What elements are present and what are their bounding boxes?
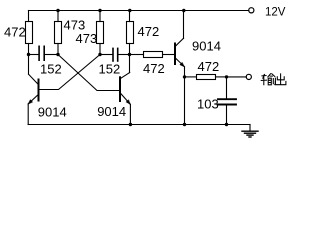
wire R1 top lead [28, 11, 30, 22]
svg-text:9014: 9014 [97, 104, 126, 119]
wire Q3 emitter lead down to output node [184, 67, 186, 77]
node dot R2 [128, 53, 131, 56]
svg-text:152: 152 [40, 62, 62, 77]
wire ground stub [249, 125, 251, 132]
transistor Q3 base bar [174, 44, 176, 65]
transistor Q2 base bar [119, 77, 121, 101]
capacitor C3 103 plates [218, 98, 236, 100]
resistor R1 472 body [26, 22, 33, 44]
transistor Q3 emitter diagonal with arrow [175, 58, 184, 67]
node dot top rail R4 [128, 9, 131, 12]
svg-text:9014: 9014 [192, 38, 221, 53]
label output chinese 输出 [261, 73, 286, 85]
svg-text:9014: 9014 [38, 104, 67, 119]
wire R4 bottom lead [129, 44, 131, 55]
wire Q3 collector lead [183, 11, 185, 39]
svg-text:12V: 12V [265, 7, 286, 19]
resistor R5 472 body horizontal [144, 52, 163, 58]
wire R4 top lead [129, 11, 131, 22]
terminal 12V circle [249, 8, 254, 13]
wire R5 to Q3 base [163, 54, 174, 56]
wire Q1 collector lead [28, 55, 30, 75]
wire node R2 to R5 [130, 54, 144, 56]
char shu 输 [261, 74, 267, 85]
transistor Q2 emitter diagonal with arrow [121, 93, 131, 104]
transistor Q1 collector diagonal [29, 74, 39, 84]
svg-text:152: 152 [99, 62, 121, 77]
node dot rail emitter down [183, 123, 186, 126]
wire R3 top lead [99, 11, 101, 22]
node dot cap top [225, 75, 228, 78]
svg-text:472: 472 [198, 59, 220, 74]
node dot R1 [98, 53, 101, 56]
node dot rail Q2 emitter [129, 123, 132, 126]
transistor Q2 collector diagonal [120, 73, 129, 79]
wire C2 right plate to node R2 [119, 54, 130, 56]
wire Q2 collector lead [129, 55, 131, 73]
node dot top rail Q3 collector [182, 9, 185, 12]
svg-text:473: 473 [76, 31, 98, 46]
wire bottom ground rail [28, 124, 250, 126]
node dot output emitter [183, 75, 186, 78]
transistor Q1 emitter diagonal with arrow [28, 95, 38, 104]
wire top supply rail [29, 10, 249, 12]
resistor R3 473 body [97, 22, 104, 44]
wire R3 bottom lead [99, 44, 101, 55]
wire R1 bottom lead [28, 44, 30, 55]
wire R6 to output cap node [216, 76, 227, 78]
transistor Q1 base bar [38, 80, 40, 101]
wire Q1 emitter lead [27, 104, 29, 125]
char chu 出 [275, 73, 286, 84]
svg-text:472: 472 [4, 25, 26, 40]
wire output node to R6 [185, 76, 197, 78]
wire node L1 to C1 left plate [29, 54, 39, 56]
wire R2 top lead [57, 11, 59, 22]
svg-text:472: 472 [138, 24, 160, 39]
wire node R1 to C2 left plate [100, 54, 112, 56]
resistor R2 473 body [55, 22, 62, 44]
wire C1 right plate to node L2 [45, 54, 58, 56]
wire Q2 emitter lead [129, 104, 131, 124]
capacitor C1 152 plates [38, 46, 40, 60]
wire output node down to ground rail [184, 77, 186, 125]
wire cap C3 top lead [226, 77, 228, 98]
node dot top rail R2 [56, 9, 59, 12]
node dot L2 [56, 53, 59, 56]
resistor R4 472 body [127, 22, 134, 44]
wire R2 bottom lead [57, 44, 59, 55]
node dot L1 [27, 53, 30, 56]
svg-text:472: 472 [143, 61, 165, 76]
node dot top rail R3 [98, 9, 101, 12]
terminal output circle [246, 74, 251, 79]
wire cap C3 bottom lead [226, 106, 228, 125]
resistor R6 472 body horizontal [197, 75, 216, 80]
wire output node to output terminal [227, 76, 247, 78]
transistor Q3 collector diagonal [175, 38, 183, 46]
svg-text:103: 103 [197, 96, 219, 111]
node dot rail cap bottom [225, 123, 228, 126]
wire cross-coupling R1 to Q1 base [39, 55, 100, 90]
ground symbol [242, 130, 258, 132]
wire cross-coupling L2 to Q2 base [58, 55, 119, 91]
capacitor C2 152 plates [112, 48, 114, 61]
